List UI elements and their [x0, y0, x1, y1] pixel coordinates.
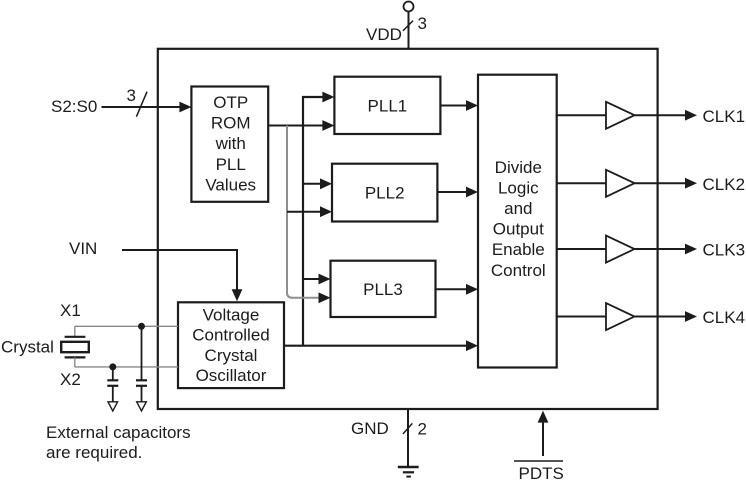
capacitor C2 bottom lead	[141, 386, 143, 402]
svg-text:Controlled: Controlled	[192, 326, 270, 345]
block PLL2	[332, 164, 437, 222]
svg-text:Control: Control	[491, 261, 546, 280]
node junction on X1 wire	[138, 323, 145, 330]
block OTP ROM U1	[191, 87, 268, 202]
buffer U5 (CLK4)	[606, 303, 635, 330]
svg-text:Output: Output	[493, 220, 544, 239]
node junction on X2 wire	[109, 363, 116, 370]
crystal Y1 bottom plate	[65, 356, 86, 358]
label PDTS with overline	[514, 460, 563, 462]
capacitor C2 plates	[136, 379, 147, 381]
svg-text:PLL2: PLL2	[365, 184, 405, 203]
wire X1	[75, 325, 178, 327]
wire VDD	[408, 12, 410, 49]
svg-text:Oscillator: Oscillator	[196, 366, 267, 385]
wire PLL1 output to divide logic	[440, 105, 468, 107]
wire gray bus (OTP values) vertical	[287, 126, 320, 298]
capacitor C1 bottom lead	[112, 386, 114, 402]
svg-text:S2:S0: S2:S0	[51, 97, 97, 116]
svg-text:3: 3	[127, 86, 136, 105]
capacitor C1 lead	[112, 367, 114, 380]
svg-text:3: 3	[418, 14, 427, 33]
capacitor C1 plates	[107, 379, 118, 381]
svg-text:CLK3: CLK3	[703, 241, 746, 260]
crystal Y1 bottom lead	[74, 357, 76, 367]
svg-text:VDD: VDD	[366, 25, 402, 44]
svg-text:PDTS: PDTS	[519, 464, 564, 481]
wire buffer2 to CLK2	[635, 182, 688, 184]
svg-text:CLK2: CLK2	[703, 175, 746, 194]
svg-text:GND: GND	[351, 419, 389, 438]
crystal Y1 body	[61, 342, 89, 352]
wire VCXO output to divide logic (joined by black bus)	[284, 345, 468, 347]
wire OTP ROM output to PLL1 lower input	[268, 125, 324, 127]
buffer U2 (CLK1)	[606, 102, 635, 129]
crystal Y1 top lead	[74, 326, 76, 337]
svg-text:OTP: OTP	[213, 93, 248, 112]
block VCXO	[178, 302, 284, 388]
wire black bus vertical (reference clock)	[303, 97, 325, 346]
wire buffer4 to CLK4	[635, 316, 688, 318]
svg-text:External capacitors: External capacitors	[46, 423, 191, 442]
wire buffer3 to CLK3	[635, 248, 688, 250]
svg-text:X2: X2	[60, 370, 81, 389]
wire buffer1 to CLK1	[635, 114, 688, 116]
wire stub to PLL3 upper input	[303, 278, 321, 280]
ground symbol	[398, 466, 419, 468]
ground open arrow C2	[137, 402, 147, 411]
wire GND	[407, 409, 409, 467]
wire S2:S0 input	[102, 106, 183, 108]
svg-text:Values: Values	[205, 175, 256, 194]
svg-text:are required.: are required.	[46, 443, 142, 462]
bus slash GND	[403, 423, 412, 434]
wire X2	[75, 366, 178, 368]
svg-text:Crystal: Crystal	[1, 338, 54, 357]
svg-text:VIN: VIN	[69, 239, 97, 258]
svg-text:and: and	[504, 199, 532, 218]
ground open arrow C1	[108, 402, 118, 411]
wire divide logic to buffer 4	[557, 316, 606, 318]
svg-text:ROM: ROM	[211, 114, 251, 133]
wire divide logic to buffer 2	[557, 182, 606, 184]
svg-text:Voltage: Voltage	[203, 305, 260, 324]
pin VDD terminal circle	[404, 2, 414, 12]
wire divide logic to buffer 3	[557, 248, 606, 250]
bus slash S2:S0	[136, 92, 147, 117]
chip boundary	[158, 49, 658, 409]
svg-text:Enable: Enable	[492, 240, 545, 259]
block divide logic and output enable control	[478, 75, 557, 368]
crystal Y1 top plate	[65, 336, 86, 338]
block PLL3	[331, 261, 436, 317]
buffer U4 (CLK3)	[606, 236, 635, 263]
svg-text:with: with	[215, 134, 246, 153]
svg-text:2: 2	[418, 420, 427, 439]
bus slash VDD	[403, 21, 413, 31]
svg-text:CLK4: CLK4	[703, 308, 746, 327]
svg-text:Logic: Logic	[498, 178, 539, 197]
block PLL1	[334, 77, 440, 134]
svg-text:PLL: PLL	[216, 155, 246, 174]
svg-text:Divide: Divide	[495, 158, 542, 177]
wire stub to PLL2 lower input	[287, 211, 323, 213]
svg-text:PLL1: PLL1	[368, 96, 408, 115]
buffer U3 (CLK2)	[606, 170, 635, 197]
svg-text:CLK1: CLK1	[703, 107, 746, 126]
wire arrow into PLL3 lower input	[319, 292, 331, 303]
wire VIN to VCXO	[122, 250, 237, 291]
wire PDTS input arrow	[542, 421, 544, 456]
wire divide logic to buffer 1	[557, 114, 606, 116]
wire PLL2 output to divide logic	[437, 191, 468, 193]
svg-text:X1: X1	[60, 301, 81, 320]
svg-text:Crystal: Crystal	[205, 346, 258, 365]
wire arrow into PLL1 upper input	[322, 92, 334, 103]
capacitor C2 lead	[141, 326, 143, 380]
svg-text:PLL3: PLL3	[363, 280, 403, 299]
wire stub to PLL2 upper input	[303, 183, 323, 185]
wire PLL3 output to divide logic	[436, 288, 469, 290]
